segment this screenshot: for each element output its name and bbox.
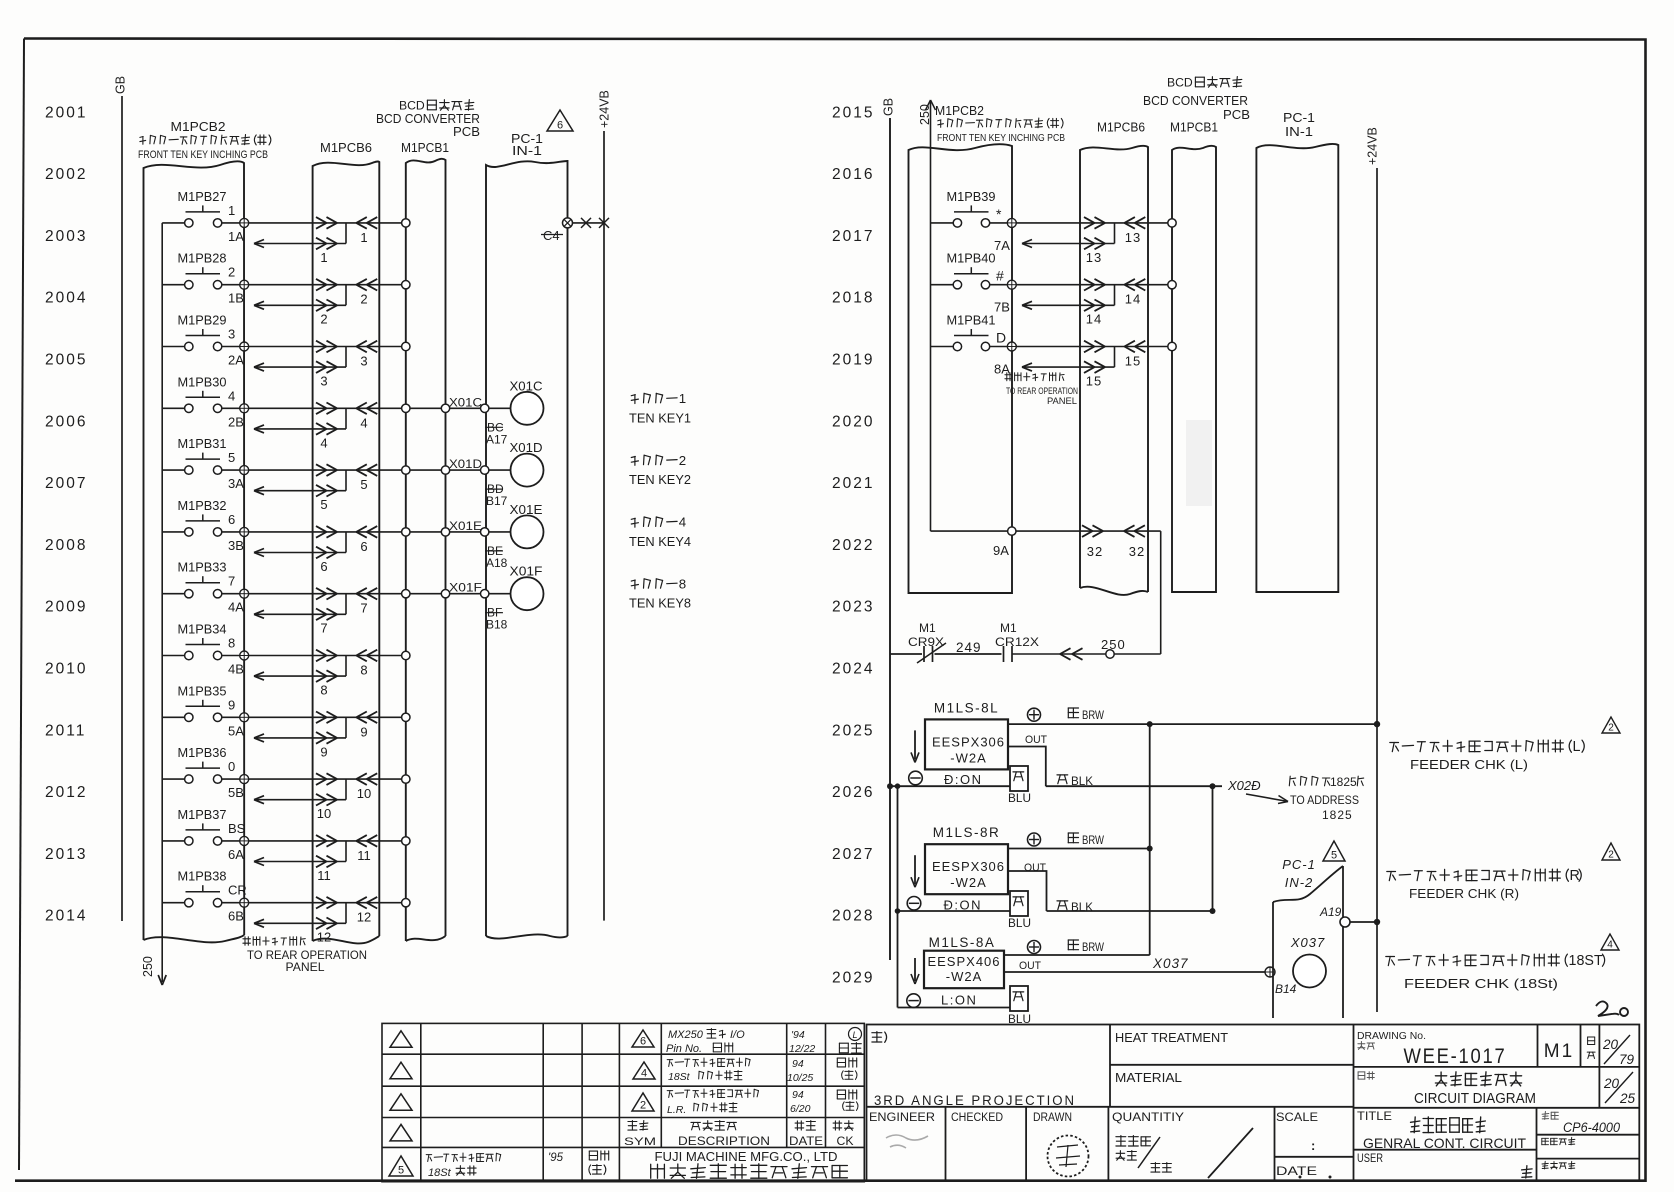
svg-text:4: 4: [641, 1068, 647, 1080]
svg-text:2011: 2011: [45, 722, 86, 739]
chevrons right on row 2005: [316, 341, 327, 347]
svg-text:1825: 1825: [1330, 775, 1357, 789]
svg-text:M1LS-8A: M1LS-8A: [929, 935, 996, 950]
svg-text:TO REAR OPERATION: TO REAR OPERATION: [1006, 386, 1078, 396]
svg-text:10/25: 10/25: [787, 1072, 813, 1084]
connector pin node (circle-cross) row 2019: [1007, 342, 1016, 351]
svg-text:'95: '95: [548, 1152, 564, 1164]
wire M1PB41 to node: [990, 346, 1008, 348]
svg-text:18St: 18St: [668, 1071, 691, 1083]
wire rail to M1PB40: [931, 284, 954, 286]
svg-text:A19: A19: [1319, 905, 1342, 919]
wire rail to M1PB37: [162, 840, 184, 842]
wire row 2006 main to M1PCB1: [249, 407, 402, 409]
bus sensor plus collector: [1149, 724, 1151, 955]
svg-text:D: D: [996, 330, 1006, 346]
title block: revision table: [382, 1023, 864, 1181]
junction drop row 2007: [345, 470, 347, 491]
svg-text:7: 7: [320, 621, 327, 636]
svg-text:M1PCB2: M1PCB2: [171, 119, 226, 134]
wire X01C to lamp circle: [489, 407, 511, 409]
svg-text:TO REAR OPERATION: TO REAR OPERATION: [247, 950, 367, 962]
svg-text:M1PCB1: M1PCB1: [1170, 120, 1218, 135]
chevrons left on row 2019: [1124, 341, 1135, 347]
svg-text:IN-1: IN-1: [1285, 124, 1313, 139]
svg-text:L: L: [852, 1030, 857, 1040]
wire M1PB34 to node 8: [222, 655, 240, 657]
svg-text:3RD ANGLE PROJECTION: 3RD ANGLE PROJECTION: [874, 1093, 1076, 1108]
svg-text:13: 13: [1125, 230, 1141, 245]
wire rail to M1PB32: [162, 531, 184, 533]
function label TEN KEY4: [631, 515, 686, 530]
svg-text:A18: A18: [486, 556, 508, 570]
annotation FEEDER CHK (R): [1602, 843, 1620, 860]
svg-text:5: 5: [320, 497, 327, 512]
svg-text:2013: 2013: [45, 846, 87, 863]
chevrons right on row 2017: [1084, 217, 1095, 223]
svg-text:6: 6: [228, 512, 235, 527]
svg-text:2016: 2016: [832, 166, 874, 183]
svg-text:I/O: I/O: [730, 1029, 745, 1041]
svg-text:TITLE: TITLE: [1357, 1111, 1392, 1123]
pushbutton M1PB30: [186, 396, 221, 398]
wire 8A plus (BRW): [1004, 954, 1150, 956]
blue label box 8R: [1010, 891, 1028, 916]
return wire 5A row 2011: [254, 737, 346, 739]
svg-text:X01C: X01C: [510, 379, 543, 393]
wire rail to M1PB35: [162, 716, 184, 718]
wire row 2014 main to M1PCB1: [249, 902, 402, 904]
svg-text:4: 4: [320, 435, 327, 450]
wire M1PB38 to node CR: [222, 902, 240, 904]
chevrons left on row 2006: [356, 403, 367, 409]
svg-text:QUANTITIY: QUANTITIY: [1112, 1112, 1184, 1124]
junction drop row 2008: [345, 532, 347, 553]
bus sensor minus collector: [897, 786, 899, 1007]
blue label box 8A: [1010, 986, 1028, 1011]
revision empty triangles: [390, 1031, 412, 1048]
svg-text:M1PB29: M1PB29: [178, 313, 227, 328]
wire rail to M1PB33: [162, 593, 184, 595]
node circle M1PCB1 pin row 2018: [1168, 281, 1176, 289]
svg-text:2: 2: [360, 292, 367, 307]
svg-text:GENRAL CONT. CIRCUIT: GENRAL CONT. CIRCUIT: [1363, 1135, 1526, 1151]
junction drop row 2005: [345, 347, 347, 368]
svg-text:M1PCB6: M1PCB6: [1097, 120, 1145, 135]
svg-text:94: 94: [792, 1058, 804, 1070]
svg-text:M1PB34: M1PB34: [178, 622, 227, 637]
svg-text:-W2A: -W2A: [946, 969, 983, 984]
node circle M1PCB1 pin row 2011: [402, 713, 410, 721]
svg-text:+24VB: +24VB: [598, 90, 612, 128]
chevrons left on row 2004: [356, 279, 367, 285]
wire M1PB37 to node BS: [222, 840, 240, 842]
svg-text:#: #: [996, 268, 1004, 284]
PCB M1PCB6 (left) outline: [313, 161, 380, 941]
wire X01E to lamp circle: [489, 531, 511, 533]
svg-text:2018: 2018: [832, 290, 874, 307]
junction drop row 2018: [1114, 285, 1116, 306]
svg-text:250: 250: [141, 956, 155, 977]
svg-text:DRAWING No.: DRAWING No.: [1357, 1030, 1426, 1042]
svg-text:CP6-4000: CP6-4000: [1563, 1120, 1620, 1135]
svg-text:11: 11: [357, 848, 371, 863]
PCB M1PCB1 (right) outline: [1172, 146, 1216, 592]
wire 8L OUT black to X02D: [1046, 785, 1222, 787]
junction drop row 2004: [345, 285, 347, 306]
chevrons left on row 2013: [356, 835, 367, 841]
connector PC-1 IN-1 (right) outline: [1256, 144, 1338, 592]
return wire 1A row 2003: [254, 243, 346, 245]
svg-text:'94: '94: [791, 1029, 805, 1041]
svg-text:2006: 2006: [45, 413, 87, 430]
svg-text:BRW: BRW: [1082, 708, 1105, 722]
svg-text:2010: 2010: [45, 661, 87, 678]
svg-text:PCB: PCB: [1223, 108, 1250, 122]
svg-text:3: 3: [360, 354, 367, 369]
svg-text:18ST: 18ST: [1569, 953, 1603, 969]
wire row 2019 main to M1PCB1: [1016, 346, 1168, 348]
chevrons left on row 2009: [356, 588, 367, 594]
svg-text:BS: BS: [228, 821, 246, 836]
pushbutton M1PB27: [186, 211, 221, 213]
pushbutton M1PB36: [186, 767, 221, 769]
svg-text:M1PCB6: M1PCB6: [320, 140, 372, 155]
svg-text:2: 2: [1608, 850, 1614, 861]
svg-text:M1LS-8R: M1LS-8R: [933, 825, 1001, 840]
svg-text:M1PB38: M1PB38: [178, 869, 227, 884]
scan noise smudge: [1186, 420, 1212, 506]
wire 8R plus (BRW): [1008, 848, 1150, 850]
wire M1PB30 to node 4: [222, 407, 240, 409]
return wire 5B row 2012: [254, 799, 346, 801]
svg-text:EESPX306: EESPX306: [932, 859, 1005, 874]
chevrons right on row 2011: [316, 712, 327, 718]
sensor M1LS-8R (EESPX306-W2A): [925, 844, 1008, 894]
svg-text:8: 8: [320, 683, 327, 698]
svg-text:4B: 4B: [228, 662, 244, 677]
down arrow (light beam) of M1LS-8R: [914, 855, 916, 884]
svg-text:WEE-1017: WEE-1017: [1404, 1045, 1507, 1068]
svg-text:5B: 5B: [228, 785, 244, 800]
chevrons right on row 2008: [316, 526, 327, 532]
chevrons left on row 2003: [356, 217, 367, 223]
svg-text:2014: 2014: [45, 908, 87, 925]
node circle M1PCB1 pin row 2009: [402, 590, 410, 598]
sensor M1LS-8L (EESPX306-W2A): [925, 719, 1008, 769]
connector pin node (circle-cross) row 2013: [240, 836, 249, 845]
pushbutton M1PB31: [186, 458, 221, 460]
svg-text:4A: 4A: [228, 600, 244, 615]
node circle M1PCB1 pin row 2006: [402, 404, 410, 412]
svg-text:2015: 2015: [832, 104, 874, 121]
minus terminal symbol 8A: [907, 994, 921, 1008]
chevrons left on row 2010: [356, 650, 367, 656]
svg-text:11: 11: [317, 868, 331, 883]
svg-text:BLK: BLK: [1071, 774, 1093, 788]
connector pin node (circle-cross) row 2006: [240, 404, 249, 413]
PCB M1PCB1 (left) outline: [406, 159, 446, 941]
svg-text:BLU: BLU: [1008, 918, 1031, 930]
svg-text:TEN KEY2: TEN KEY2: [629, 473, 691, 487]
svg-text:CIRCUIT DIAGRAM: CIRCUIT DIAGRAM: [1414, 1091, 1536, 1107]
wire M1PB32 to node 6: [222, 531, 240, 533]
connector pin node (circle-cross) row 2012: [240, 775, 249, 784]
svg-text:M1PCB2: M1PCB2: [935, 103, 984, 118]
svg-text:13: 13: [1086, 250, 1102, 265]
return wire 8A row 2019: [1022, 366, 1115, 368]
svg-text:8: 8: [360, 663, 367, 678]
title block: main: [867, 1025, 1640, 1182]
svg-text:M1PB37: M1PB37: [178, 807, 227, 822]
svg-text:R: R: [1570, 868, 1580, 884]
note TO REAR OPERATION PANEL (left): [243, 937, 305, 945]
svg-text:7: 7: [360, 601, 367, 616]
wire row 2013 main to M1PCB1: [249, 840, 402, 842]
svg-text:PC-1: PC-1: [1282, 857, 1316, 872]
wire rail to M1PB38: [162, 902, 184, 904]
wire rail to M1PB27: [162, 222, 184, 224]
svg-text:X01D: X01D: [449, 457, 482, 471]
svg-text:X01D: X01D: [510, 441, 543, 455]
svg-text:249: 249: [956, 640, 982, 655]
pushbutton M1PB40: [954, 273, 989, 275]
pin circle X01D on PC-1 IN-1: [481, 466, 489, 474]
production number cell: [1542, 1161, 1575, 1169]
plus terminal symbol 8R: [1028, 833, 1041, 846]
chevrons left on row 2018: [1124, 279, 1135, 285]
svg-text:2021: 2021: [832, 475, 874, 492]
chevrons right on row 2010: [316, 650, 327, 656]
svg-text:BCD: BCD: [399, 98, 425, 112]
pin circle 9A on M1PCB2: [1008, 527, 1016, 535]
wire row 2017 main to M1PCB1: [1016, 222, 1168, 224]
svg-text:5: 5: [360, 477, 367, 492]
connector pin B14 on PC-1 IN-2: [1265, 967, 1275, 977]
wire X01D to PC-1: [450, 469, 481, 471]
PCB M1PCB2 (left) outline: [144, 161, 245, 940]
PCB label BCD CONVERTER PCB (left): [399, 98, 425, 112]
wire row 2009 main to M1PCB1: [249, 593, 402, 595]
chevrons right on row 2012: [316, 773, 327, 779]
revision triangle 6 (left): [547, 110, 573, 131]
return wire 2B row 2006: [254, 428, 346, 430]
svg-text:M1PB40: M1PB40: [947, 251, 996, 266]
wire X01F to PC-1: [450, 593, 481, 595]
svg-text:M1PB33: M1PB33: [178, 560, 227, 575]
PCB label BCD CONVERTER PCB (right): [1167, 75, 1193, 89]
note TO REAR OPERATION PANEL (right): [1005, 373, 1064, 381]
return wire 4A row 2009: [254, 613, 346, 615]
product name cell: [1358, 1072, 1374, 1080]
connector pin node (circle-cross) row 2010: [240, 651, 249, 660]
wire row 2012 main to M1PCB1: [249, 778, 402, 780]
node circle M1PCB1 pin row 2008: [402, 528, 410, 536]
svg-text:M1: M1: [1544, 1041, 1574, 1062]
svg-text:4: 4: [679, 515, 686, 530]
svg-text:2009: 2009: [45, 599, 87, 616]
svg-text:2007: 2007: [45, 475, 87, 492]
svg-text:EESPX306: EESPX306: [932, 734, 1005, 749]
svg-text:2020: 2020: [832, 413, 874, 430]
svg-text:5: 5: [228, 450, 235, 465]
wire 8L minus (BLU): [890, 785, 1010, 787]
pin circle X01F on M1PCB1: [441, 590, 449, 598]
junction drop row 2019: [1114, 347, 1116, 368]
wire 2024 to corner: [1012, 653, 1161, 655]
svg-text:X02Đ: X02Đ: [1227, 778, 1261, 793]
svg-text:M1: M1: [919, 621, 936, 635]
pushbutton M1PB38: [186, 891, 221, 893]
wire row 2018 main to M1PCB1: [1016, 284, 1168, 286]
chevrons right on row 2014: [316, 897, 327, 903]
junction drop row 2017: [1114, 223, 1116, 244]
connector circle X01E: [511, 515, 544, 548]
svg-text:M1PB28: M1PB28: [178, 251, 227, 266]
node circle M1PCB1 pin row 2012: [402, 775, 410, 783]
svg-text:CR12X: CR12X: [995, 635, 1039, 649]
wire M1PB33 to node 7: [222, 593, 240, 595]
svg-text:9: 9: [228, 697, 235, 712]
svg-text:2: 2: [228, 265, 235, 280]
svg-text:12: 12: [317, 930, 331, 945]
wire color label BRW 8L: [1068, 708, 1078, 718]
svg-text:2024: 2024: [832, 661, 874, 678]
lamp circle X037: [1293, 955, 1326, 988]
svg-text:4: 4: [1607, 940, 1613, 951]
revision header row: [628, 1121, 648, 1131]
svg-text:M1PB32: M1PB32: [178, 498, 227, 513]
svg-text:5: 5: [398, 1165, 404, 1177]
revision triangle 5 row: [389, 1156, 413, 1176]
svg-text:CR: CR: [228, 883, 247, 898]
svg-text:14: 14: [1086, 312, 1102, 327]
svg-text:DRAWN: DRAWN: [1033, 1112, 1072, 1124]
node circle M1PCB1 pin row 2014: [402, 899, 410, 907]
svg-text:B17: B17: [486, 494, 508, 508]
return wire 3A row 2007: [254, 490, 346, 492]
connector pin node (circle-cross) row 2005: [240, 342, 249, 351]
chevrons left rung 2024: [1060, 648, 1071, 654]
wire X01F from node to M1PCB1 right edge: [410, 593, 442, 595]
down arrow (light beam) of M1LS-8L: [914, 730, 916, 759]
pin circle X01C on M1PCB1: [441, 404, 449, 412]
connector pin node (circle-cross) row 2017: [1007, 218, 1016, 227]
connector pin node (circle-cross) row 2008: [240, 527, 249, 536]
wire rail to M1PB31: [162, 469, 184, 471]
svg-text:2: 2: [320, 312, 327, 327]
svg-text:250: 250: [1101, 637, 1126, 652]
node circle M1PCB1 pin row 2017: [1168, 219, 1176, 227]
svg-text:X01F: X01F: [449, 581, 482, 595]
svg-text:TEN KEY1: TEN KEY1: [629, 411, 691, 425]
svg-text:1A: 1A: [228, 229, 244, 244]
svg-text:BCD CONVERTER: BCD CONVERTER: [376, 112, 480, 126]
svg-text:M1PB31: M1PB31: [178, 436, 227, 451]
chevrons left on row 2017: [1124, 217, 1135, 223]
wire rail to M1PB30: [162, 407, 184, 409]
plus terminal symbol 8L: [1028, 708, 1041, 721]
model cell CP6-4000: [1542, 1112, 1558, 1120]
junction drop row 2014: [345, 903, 347, 924]
wire X01F to lamp circle: [489, 593, 511, 595]
svg-text:A17: A17: [486, 432, 508, 446]
svg-text:X01E: X01E: [510, 503, 543, 517]
svg-text:MATERIAL: MATERIAL: [1115, 1071, 1182, 1085]
wire row 2003 main to M1PCB1: [249, 222, 402, 224]
svg-text:PANEL: PANEL: [286, 962, 326, 974]
junction drop row 2009: [345, 594, 347, 615]
PCB M1PCB6 (right) outline: [1080, 146, 1148, 592]
svg-text:10: 10: [317, 806, 331, 821]
return wire 1B row 2004: [254, 304, 346, 306]
wire X01E from node to M1PCB1 right edge: [410, 531, 442, 533]
wire M1PB39 to node: [990, 222, 1008, 224]
svg-text:2A: 2A: [228, 353, 244, 368]
net C4 crossed out, row 2003 to +24VB: [563, 218, 573, 228]
svg-text:0: 0: [228, 759, 235, 774]
pushbutton M1PB34: [186, 644, 221, 646]
svg-text:TEN KEY4: TEN KEY4: [629, 535, 691, 549]
svg-text:7B: 7B: [994, 300, 1010, 315]
svg-text:FEEDER CHK (18St): FEEDER CHK (18St): [1404, 977, 1558, 991]
svg-text:79: 79: [1619, 1052, 1635, 1067]
svg-text:USER: USER: [1357, 1153, 1383, 1165]
svg-text:-W2A: -W2A: [950, 750, 987, 765]
svg-text:2028: 2028: [832, 908, 874, 925]
svg-text:1: 1: [228, 203, 235, 218]
junction drop row 2003: [345, 223, 347, 244]
minus terminal symbol 8L: [909, 771, 923, 785]
wire M1PB36 to node 0: [222, 778, 240, 780]
PCB M1PCB2 (right) outline: [909, 144, 1013, 593]
wire rail to M1PB41: [931, 346, 954, 348]
connector circle X01F: [511, 577, 544, 610]
svg-text:9A: 9A: [993, 543, 1009, 558]
chevrons row 2022: [1082, 525, 1093, 531]
svg-text:1B: 1B: [228, 291, 244, 306]
svg-text:18St: 18St: [428, 1167, 452, 1179]
svg-text:2001: 2001: [45, 104, 87, 121]
svg-text:X037: X037: [1290, 935, 1325, 950]
svg-text:B14: B14: [1275, 982, 1297, 996]
svg-text:DATE: DATE: [789, 1136, 823, 1148]
wire X01D to lamp circle: [489, 469, 511, 471]
svg-text:B18: B18: [486, 618, 508, 632]
svg-text:IN-1: IN-1: [512, 143, 542, 158]
chevrons right on row 2004: [316, 279, 327, 285]
svg-text:2005: 2005: [45, 352, 87, 369]
pin circle X01C on PC-1 IN-1: [481, 404, 489, 412]
node circle M1PCB1 pin row 2013: [402, 837, 410, 845]
connector pin node (circle-cross) row 2004: [240, 280, 249, 289]
annotation FEEDER CHK (18ST): [1601, 934, 1619, 950]
revision row 1: triangle 6: [632, 1030, 654, 1047]
junction drop row 2013: [345, 841, 347, 862]
pin circle X01E on M1PCB1: [441, 528, 449, 536]
svg-text:M1PB35: M1PB35: [178, 683, 227, 698]
junction drop row 2011: [345, 717, 347, 738]
plus terminal symbol 8A: [1028, 941, 1041, 954]
svg-text:CK: CK: [837, 1136, 854, 1148]
rung 2024 wire from GB: [890, 653, 922, 655]
svg-text:9: 9: [320, 744, 327, 759]
revision row 3: triangle 2: [632, 1093, 654, 1111]
svg-text:2017: 2017: [832, 228, 874, 245]
svg-text:15: 15: [1125, 354, 1141, 369]
blue label box 8L: [1010, 766, 1028, 791]
svg-text:2025: 2025: [832, 722, 874, 739]
